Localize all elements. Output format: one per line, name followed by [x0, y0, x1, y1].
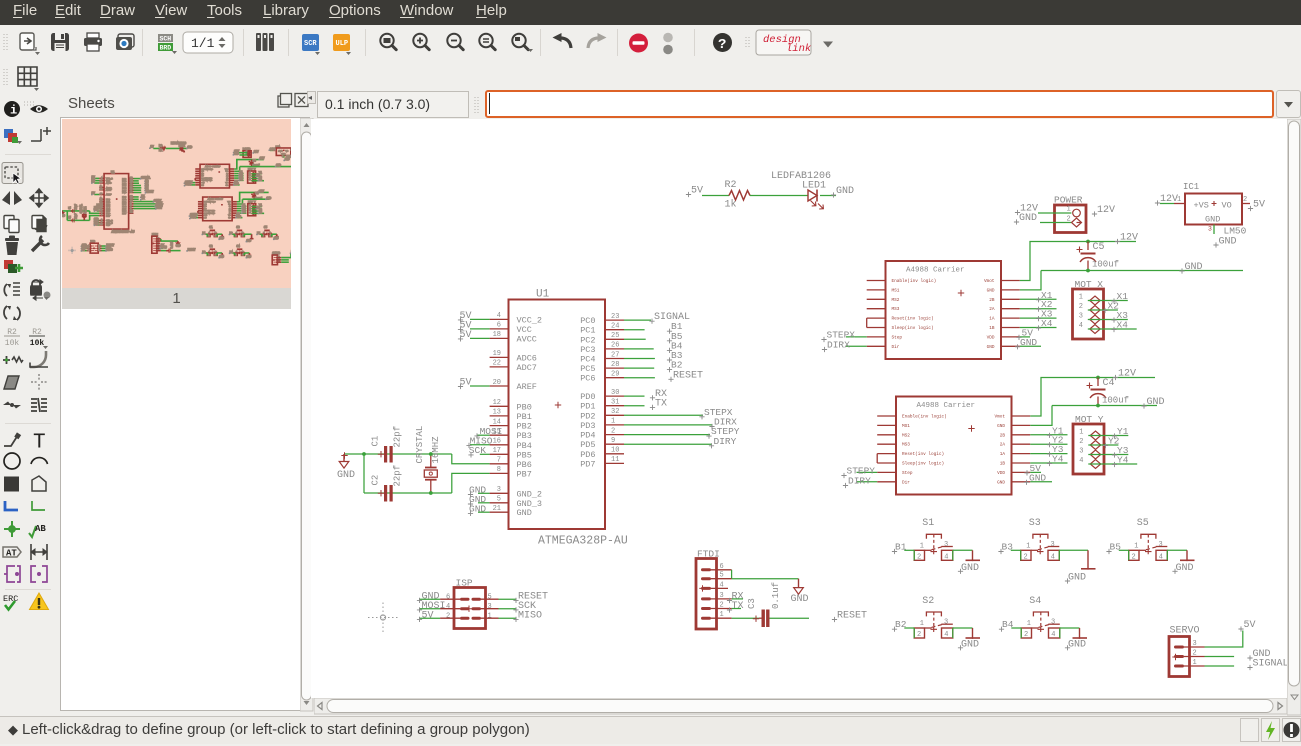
- svg-text:MS1: MS1: [892, 288, 900, 293]
- svg-text:C3: C3: [165, 245, 168, 248]
- wire 5V to U1: [470, 328, 490, 330]
- net label X4 (MOT X): [1111, 320, 1128, 333]
- wire FTDI GND net: [732, 578, 799, 580]
- svg-text:VCC: VCC: [517, 325, 532, 335]
- svg-text:2: 2: [88, 250, 89, 252]
- net label DIRX (U1): [709, 417, 737, 430]
- svg-text:GND: GND: [987, 345, 995, 350]
- svg-text:31: 31: [130, 198, 132, 200]
- svg-text:4: 4: [497, 312, 501, 320]
- svg-text:16: 16: [493, 438, 501, 446]
- net label 5V (A4988 Y): [1024, 463, 1041, 476]
- net label X2 (A4988 X): [1036, 299, 1053, 312]
- wire Y4 from A4988 Y: [1030, 462, 1067, 464]
- net label B5 (U1): [667, 331, 683, 344]
- svg-text:30: 30: [130, 195, 132, 197]
- wire S3 to GND: [1059, 550, 1088, 560]
- svg-text:X4: X4: [1041, 318, 1053, 329]
- svg-text:?: ?: [718, 37, 726, 53]
- svg-text:GND: GND: [1205, 215, 1220, 225]
- wire X3 MOT X: [1088, 319, 1128, 321]
- svg-text:DIRY: DIRY: [848, 476, 871, 487]
- svg-text:ADC7: ADC7: [517, 363, 537, 373]
- svg-text:GND: GND: [1219, 237, 1237, 248]
- net label 5V (LED): [686, 186, 703, 198]
- svg-text:GND: GND: [1019, 213, 1037, 224]
- svg-text:12V: 12V: [254, 150, 259, 153]
- connector SERVO: [1169, 626, 1200, 677]
- svg-text:A4988 Carrier: A4988 Carrier: [205, 165, 220, 168]
- net label B2 (U1): [667, 360, 683, 373]
- svg-text:6: 6: [446, 594, 450, 602]
- pin 2 ISP left stub: [440, 613, 460, 621]
- svg-text:3: 3: [488, 603, 492, 611]
- svg-text:MS2: MS2: [202, 173, 204, 175]
- net label DIRX (A4988 X): [822, 340, 850, 353]
- svg-text:PB4: PB4: [517, 441, 532, 451]
- net label B3 (U1): [667, 350, 683, 363]
- net label SCK: [468, 445, 486, 458]
- wire 5V to U1: [470, 385, 490, 387]
- svg-text:ULP: ULP: [336, 40, 349, 48]
- svg-text:PB7: PB7: [517, 469, 532, 479]
- junction C4 bottom: [1096, 404, 1100, 408]
- svg-text:GND: GND: [187, 146, 192, 149]
- junction C5 top: [1086, 240, 1090, 244]
- svg-text:25: 25: [130, 182, 132, 184]
- svg-text:PC1: PC1: [580, 326, 595, 336]
- svg-text:12V: 12V: [1160, 194, 1178, 205]
- net label 5V: [458, 320, 472, 332]
- svg-text:26: 26: [611, 342, 619, 350]
- svg-text:MS2: MS2: [892, 298, 900, 303]
- voltage regulator IC1 LM50: [1183, 182, 1247, 237]
- net label SIGNAL (PC0): [649, 312, 690, 324]
- svg-text:Enable(inv logic): Enable(inv logic): [902, 415, 947, 420]
- svg-text:S3: S3: [237, 226, 241, 229]
- svg-text:Enable(inv logic): Enable(inv logic): [204, 201, 216, 203]
- connector FTDI: [696, 549, 724, 630]
- pin 3 FTDI stub: [711, 598, 732, 600]
- svg-text:1B: 1B: [226, 180, 228, 182]
- net label Y4 (A4988 Y): [1047, 454, 1064, 467]
- wire Y3 from A4988 Y: [1030, 453, 1067, 455]
- svg-text:GND: GND: [836, 186, 854, 197]
- junction crystal top: [429, 452, 433, 456]
- svg-text:S1: S1: [209, 226, 213, 229]
- svg-text:GND: GND: [997, 424, 1005, 429]
- svg-text:PB0: PB0: [517, 402, 532, 412]
- svg-text:T: T: [33, 432, 46, 455]
- svg-text:4: 4: [249, 212, 250, 214]
- wire S4 to GND: [1060, 628, 1080, 638]
- svg-text:4: 4: [446, 603, 450, 611]
- svg-text:16MHZ: 16MHZ: [431, 436, 441, 464]
- wire B5 to S5: [1119, 550, 1129, 560]
- svg-text:GND: GND: [234, 152, 239, 155]
- svg-text:GND: GND: [62, 215, 65, 218]
- svg-text:7: 7: [101, 212, 102, 214]
- svg-text:22pf: 22pf: [393, 465, 403, 487]
- wire X2 from A4988 X: [1020, 308, 1057, 310]
- svg-text:3: 3: [1159, 541, 1163, 549]
- svg-text:PD7: PD7: [580, 459, 595, 469]
- svg-text:B4: B4: [1002, 619, 1014, 630]
- switch S3: [1021, 518, 1060, 561]
- connector MOT Y: [1073, 414, 1104, 474]
- svg-text:2A: 2A: [1000, 443, 1006, 448]
- svg-text:RESET: RESET: [188, 249, 196, 252]
- crystal CRYSTAL 16MHZ: [415, 426, 441, 493]
- svg-text:2: 2: [1079, 438, 1083, 446]
- svg-text:GND: GND: [337, 470, 355, 481]
- svg-text:17: 17: [493, 447, 501, 455]
- wire GND to U1: [478, 492, 490, 494]
- svg-text:1: 1: [1079, 294, 1083, 302]
- wire R2 to LED1: [750, 195, 808, 197]
- svg-text:MS1: MS1: [204, 203, 206, 205]
- svg-text:Step: Step: [892, 335, 903, 340]
- net label Y1 (A4988 Y): [1047, 425, 1064, 438]
- svg-text:30: 30: [611, 389, 619, 397]
- svg-text:S3: S3: [1029, 518, 1041, 529]
- svg-text:AREF: AREF: [106, 193, 112, 196]
- net label Y2 (MOT Y): [1103, 436, 1120, 449]
- svg-text:2: 2: [249, 207, 250, 209]
- module A4988 Carrier Y: [877, 397, 1030, 495]
- svg-text:12V: 12V: [260, 157, 265, 160]
- svg-text:4: 4: [101, 177, 102, 179]
- svg-text:+VS: +VS: [1194, 201, 1209, 211]
- net label GND (Y rail): [1141, 397, 1164, 409]
- svg-text:ADC6: ADC6: [517, 353, 537, 363]
- svg-text:VO: VO: [1222, 201, 1232, 211]
- svg-text:S2: S2: [922, 596, 934, 607]
- net label GND (A4988 Y): [1024, 472, 1047, 485]
- junction crystal bottom: [429, 491, 433, 495]
- svg-text:GND_2: GND_2: [517, 489, 543, 499]
- net label DIRY (A4988 Y): [843, 476, 871, 489]
- net label 12V (IC1): [1155, 194, 1178, 206]
- svg-text:Dir: Dir: [202, 184, 204, 186]
- svg-text:5: 5: [101, 221, 102, 223]
- svg-text:Dir: Dir: [204, 217, 206, 219]
- svg-text:13: 13: [493, 409, 501, 417]
- capacitor C2: [371, 465, 403, 502]
- svg-text:4: 4: [1079, 457, 1083, 465]
- wire 5V to ISP: [419, 617, 440, 619]
- wire X3 from A4988 X: [1020, 317, 1057, 319]
- svg-text:2: 2: [1243, 196, 1247, 204]
- wire B4 to S4: [1011, 628, 1021, 638]
- svg-text:GND: GND: [226, 171, 228, 173]
- svg-text:26: 26: [130, 184, 132, 186]
- net label MISO: [466, 435, 492, 448]
- svg-text:5V: 5V: [82, 249, 86, 252]
- svg-text:1B: 1B: [229, 212, 231, 214]
- net label STEPX (U1): [699, 407, 732, 420]
- svg-text:GND: GND: [1029, 472, 1046, 483]
- pin 3 SERVO stub: [1184, 646, 1205, 648]
- svg-text:3: 3: [101, 219, 102, 221]
- svg-text:PC3: PC3: [580, 345, 595, 355]
- net label B1: [892, 542, 907, 555]
- wire Y2 from A4988 Y: [1030, 443, 1067, 445]
- svg-text:GND: GND: [247, 255, 252, 258]
- svg-text:Sleep(inv logic): Sleep(inv logic): [204, 212, 215, 214]
- svg-text:12V: 12V: [1118, 369, 1136, 380]
- svg-text:6: 6: [101, 179, 102, 181]
- svg-text:5: 5: [488, 594, 492, 602]
- wire 5V to A4988 X VDD: [1020, 336, 1030, 338]
- junction C1 left: [362, 452, 366, 456]
- svg-text:3: 3: [99, 247, 100, 249]
- svg-text:23: 23: [611, 313, 619, 321]
- svg-text:4: 4: [249, 179, 250, 181]
- svg-text:LED1: LED1: [179, 145, 186, 148]
- svg-text:19: 19: [493, 350, 501, 358]
- net label GND: [468, 494, 487, 507]
- wire X4 MOT X: [1088, 328, 1137, 330]
- svg-text:2: 2: [263, 235, 264, 237]
- svg-text:PC2: PC2: [580, 335, 595, 345]
- diode LED1: [771, 171, 831, 209]
- wire RESET from ISP: [499, 598, 517, 600]
- svg-text:5: 5: [497, 496, 501, 504]
- pin 5 ISP right stub: [481, 594, 499, 602]
- svg-text:C1: C1: [69, 206, 72, 209]
- U1 pins left side: [490, 312, 542, 518]
- wire GND to U1: [478, 511, 490, 513]
- U1 pins right side: [580, 313, 624, 470]
- svg-text:PB3: PB3: [517, 431, 532, 441]
- wire SERVO pin3 to 5V: [1205, 631, 1243, 648]
- svg-text:GND: GND: [219, 255, 224, 258]
- connector POWER: [1054, 195, 1086, 233]
- svg-text:B2: B2: [671, 360, 683, 371]
- svg-text:22pf: 22pf: [393, 426, 403, 448]
- net label GND: [468, 485, 487, 498]
- svg-text:3: 3: [1208, 226, 1212, 233]
- svg-text:RESET: RESET: [837, 611, 867, 622]
- svg-text:Reset(inv logic): Reset(inv logic): [902, 452, 944, 457]
- svg-text:1: 1: [1067, 206, 1071, 214]
- wire X1 MOT X: [1088, 300, 1128, 302]
- svg-text:12V: 12V: [259, 190, 264, 193]
- svg-text:LED1: LED1: [802, 181, 826, 192]
- svg-text:PD5: PD5: [580, 440, 595, 450]
- svg-text:10k: 10k: [30, 339, 45, 348]
- wire LED1 to GND: [820, 195, 836, 197]
- svg-text:MS2: MS2: [902, 433, 910, 438]
- svg-text:VDD: VDD: [997, 471, 1005, 476]
- svg-text:12V: 12V: [1120, 233, 1138, 244]
- wire A4988 Y GND pin to rail: [1030, 406, 1052, 426]
- svg-text:24: 24: [611, 323, 619, 331]
- svg-text:IC1: IC1: [1183, 182, 1199, 192]
- svg-text:2: 2: [1024, 631, 1028, 639]
- wire Y1 MOT Y: [1088, 435, 1128, 437]
- svg-text:B3: B3: [1002, 542, 1014, 553]
- pin 4 ISP left stub: [440, 603, 460, 611]
- pin 1 IC1: [1174, 196, 1185, 204]
- svg-text:3: 3: [1051, 619, 1055, 627]
- svg-text:SCR: SCR: [304, 40, 317, 48]
- wire SERVO pin1 SIGNAL: [1205, 665, 1235, 667]
- svg-text:5V: 5V: [1244, 620, 1256, 631]
- svg-text:PD2: PD2: [580, 411, 595, 421]
- svg-text:Y4: Y4: [1052, 454, 1064, 465]
- svg-text:GND: GND: [266, 197, 271, 200]
- svg-text:PB6: PB6: [517, 460, 532, 470]
- wire PD5 DIRY: [624, 443, 712, 445]
- svg-text:Vmot: Vmot: [228, 201, 231, 203]
- wire PC B3: [624, 358, 655, 360]
- pin 1 FTDI stub: [711, 617, 732, 619]
- wire Vmot Y to 12V rail: [1030, 378, 1155, 417]
- svg-text:2: 2: [130, 205, 131, 207]
- svg-text:1: 1: [249, 205, 250, 207]
- wire Y1 from A4988 Y: [1030, 434, 1067, 436]
- svg-text:AVCC: AVCC: [517, 334, 537, 344]
- svg-text:2: 2: [446, 613, 450, 621]
- svg-text:1: 1: [1134, 542, 1138, 550]
- wire GND to A4988 Y: [1030, 481, 1052, 483]
- svg-text:DIRX: DIRX: [827, 340, 850, 351]
- svg-text:22pf: 22pf: [74, 213, 77, 219]
- net label GND (SERVO): [1247, 649, 1270, 661]
- svg-text:ATMEGA328P-AU: ATMEGA328P-AU: [112, 231, 135, 234]
- svg-text:2: 2: [208, 235, 209, 237]
- svg-text:27: 27: [611, 351, 619, 359]
- svg-text:AVCC: AVCC: [106, 182, 112, 185]
- svg-text:Sleep(inv logic): Sleep(inv logic): [902, 462, 944, 467]
- svg-text:GND: GND: [247, 239, 252, 242]
- svg-text:2: 2: [611, 427, 615, 435]
- net label GND (POWER): [1014, 213, 1037, 225]
- svg-text:i: i: [10, 104, 17, 118]
- svg-text:A4988 Carrier: A4988 Carrier: [906, 267, 965, 275]
- svg-text:GND: GND: [517, 508, 532, 518]
- pin 3 ISP right stub: [481, 603, 499, 611]
- ground GND (FTDI): [791, 579, 809, 605]
- net label STEPX (A4988 X): [821, 330, 855, 343]
- wire PD2 STEPX: [624, 414, 703, 416]
- wire MOSI to ISP: [419, 608, 440, 610]
- ground GND (S4): [1065, 628, 1087, 650]
- svg-text:2B: 2B: [229, 206, 231, 208]
- svg-text:5V: 5V: [422, 611, 434, 622]
- svg-text:MS1: MS1: [202, 171, 204, 173]
- net label X3 (MOT X): [1111, 310, 1128, 323]
- wire C1 line to PB6: [344, 454, 490, 464]
- svg-text:6: 6: [497, 322, 501, 330]
- svg-text:DIRY: DIRY: [156, 207, 162, 210]
- net label GND (LED): [831, 186, 854, 198]
- net label SIGNAL (SERVO): [1247, 659, 1288, 671]
- svg-text:LM50: LM50: [1224, 226, 1247, 237]
- connector MOT X: [1073, 279, 1104, 339]
- svg-text:PB2: PB2: [517, 422, 532, 432]
- svg-text:TX: TX: [655, 398, 667, 409]
- svg-text:GND: GND: [228, 203, 230, 205]
- svg-text:8: 8: [497, 466, 501, 474]
- svg-text:20: 20: [100, 193, 102, 195]
- wire GND to POWER pin2: [1040, 222, 1071, 224]
- svg-text:C4: C4: [255, 192, 259, 195]
- svg-text:4: 4: [1079, 322, 1083, 330]
- svg-text:GND: GND: [1185, 262, 1203, 273]
- net label MOSI (ISP): [417, 601, 446, 613]
- wire PD4 STEPY: [624, 434, 710, 436]
- wire PC0 SIGNAL: [624, 319, 651, 321]
- svg-text:GND: GND: [285, 158, 290, 161]
- wire C1-C2 vertical: [363, 454, 365, 493]
- svg-text:28: 28: [611, 361, 619, 369]
- wire GND to A4988 X: [1020, 345, 1041, 347]
- svg-text:CRYSTAL: CRYSTAL: [80, 204, 83, 214]
- connector ISP: [454, 578, 486, 629]
- svg-text:Sleep(inv logic): Sleep(inv logic): [892, 326, 934, 331]
- svg-text:10: 10: [611, 447, 619, 455]
- svg-text:S4: S4: [237, 245, 241, 248]
- svg-text:C5: C5: [253, 159, 257, 162]
- svg-text:MS3: MS3: [902, 443, 910, 448]
- svg-text:VDD: VDD: [226, 182, 228, 184]
- ground GND (S1): [958, 550, 980, 574]
- svg-text:U1: U1: [111, 171, 115, 174]
- pin 6 ISP left stub: [440, 594, 460, 602]
- svg-text:Step: Step: [902, 471, 913, 476]
- svg-text:PD4: PD4: [580, 431, 595, 441]
- svg-text:12: 12: [100, 198, 102, 200]
- svg-text:GND: GND: [176, 245, 181, 248]
- svg-text:4: 4: [270, 235, 271, 237]
- svg-text:VDD: VDD: [987, 335, 995, 340]
- svg-text:28: 28: [130, 189, 132, 191]
- net label X1 (MOT X): [1111, 291, 1128, 304]
- svg-text:2: 2: [249, 175, 250, 177]
- svg-text:PD1: PD1: [580, 402, 595, 412]
- capacitor C1: [371, 426, 403, 463]
- switch S2: [914, 596, 953, 639]
- svg-text:5V: 5V: [1253, 200, 1265, 211]
- svg-text:GND: GND: [1147, 397, 1165, 408]
- svg-text:4: 4: [215, 254, 216, 256]
- svg-text:S5: S5: [264, 226, 268, 229]
- svg-text:100uf: 100uf: [1092, 260, 1119, 270]
- svg-text:Y4: Y4: [1117, 455, 1129, 466]
- wire RX (FTDI): [732, 598, 743, 600]
- svg-text:MS1: MS1: [902, 424, 910, 429]
- svg-text:MS3: MS3: [204, 208, 206, 210]
- wire PD3 DIRX: [624, 424, 713, 426]
- wire GND to ISP: [419, 598, 440, 600]
- pin 6 FTDI stub: [711, 569, 732, 571]
- svg-text:SIGNAL: SIGNAL: [1253, 659, 1289, 670]
- net label DIRY (U1): [709, 436, 737, 449]
- net label TX (U1): [650, 398, 667, 410]
- wire 5V to A4988 Y VDD: [1030, 471, 1041, 473]
- svg-text:3: 3: [1079, 448, 1083, 456]
- svg-text:AREF: AREF: [517, 382, 537, 392]
- net label B4: [999, 619, 1014, 632]
- switch S1: [914, 518, 953, 561]
- wire DIRX to A4988 X: [846, 345, 867, 347]
- svg-text:1A: 1A: [989, 317, 995, 322]
- wire SCK from ISP: [499, 608, 517, 610]
- net label B3: [998, 542, 1013, 555]
